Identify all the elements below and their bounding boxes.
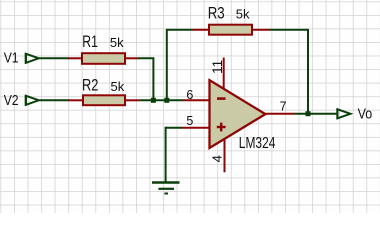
node A junction dot <box>151 98 156 103</box>
svg-text:6: 6 <box>186 88 193 102</box>
svg-text:R1: R1 <box>82 33 98 51</box>
svg-text:R3: R3 <box>208 5 225 23</box>
wire node row to op-amp pin 6 <box>140 99 183 101</box>
wire R1 to node <box>138 58 154 100</box>
wire V2 to R2 <box>39 99 69 101</box>
node B junction dot <box>164 98 169 103</box>
resistor R1 <box>68 33 139 64</box>
svg-text:V1: V1 <box>4 51 19 67</box>
op-amp pin 6 <box>183 88 210 102</box>
op-amp pin 11 <box>210 58 225 90</box>
op-amp pin 7 <box>264 100 294 114</box>
wire R3 right to output node <box>270 30 308 114</box>
op-amp pin 4 <box>209 140 224 173</box>
resistor R3 <box>193 5 271 35</box>
wire op-amp output to terminal Vo <box>294 113 337 115</box>
svg-text:5k: 5k <box>111 79 125 94</box>
wire pin 5 to ground <box>166 127 182 129</box>
node output junction dot <box>306 111 311 116</box>
op-amp pin 5 <box>182 114 211 128</box>
svg-text:Vo: Vo <box>358 107 373 123</box>
wire V1 to R1 <box>39 57 69 59</box>
op-amp U1 LM324 <box>210 80 276 152</box>
svg-text:LM324: LM324 <box>239 135 276 152</box>
svg-text:5: 5 <box>186 114 193 128</box>
terminal Vo <box>337 107 372 123</box>
svg-text:7: 7 <box>280 100 287 114</box>
wire R3 left to node <box>167 30 193 101</box>
svg-text:5k: 5k <box>236 6 250 21</box>
svg-text:R2: R2 <box>82 76 98 94</box>
svg-text:11: 11 <box>210 60 225 74</box>
terminal V1 <box>4 51 39 67</box>
resistor R2 <box>68 76 140 105</box>
ground <box>152 127 180 194</box>
svg-text:V2: V2 <box>4 93 19 109</box>
terminal V2 <box>4 93 39 109</box>
svg-text:5k: 5k <box>110 35 124 50</box>
svg-text:4: 4 <box>209 155 224 162</box>
